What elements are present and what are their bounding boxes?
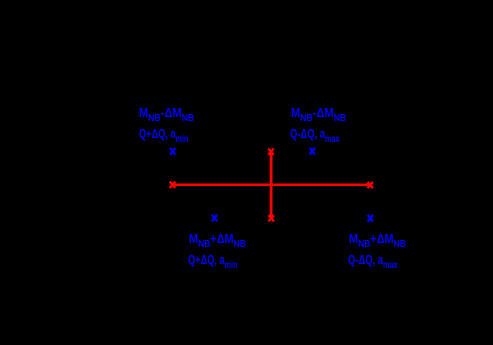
- label bottom-right line1: [349, 232, 406, 246]
- label top-left line1: [139, 106, 194, 120]
- label top-left line2: [139, 127, 188, 141]
- node: blue x point top-right: [310, 148, 315, 155]
- label bottom-left line1: [189, 232, 246, 246]
- node: red x marker top end: [268, 149, 274, 155]
- wire: red horizontal error bar: [173, 184, 371, 187]
- label bottom-left line2: [188, 253, 237, 267]
- node: red x marker bottom end: [268, 215, 274, 221]
- node: blue x point top-left: [170, 148, 175, 155]
- label top-right line2: [290, 127, 340, 141]
- wire: red vertical error bar: [270, 152, 273, 219]
- label top-right line1: [291, 106, 346, 120]
- node: red x marker right end: [367, 182, 373, 188]
- node: blue x point bottom-left: [212, 215, 217, 222]
- node: blue x point bottom-right: [368, 215, 373, 222]
- node: red x marker left end: [170, 182, 176, 188]
- label bottom-right line2: [348, 253, 398, 267]
